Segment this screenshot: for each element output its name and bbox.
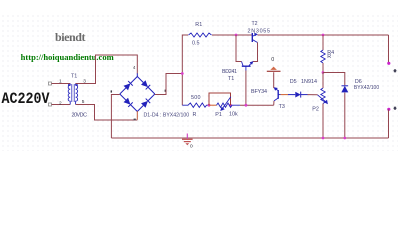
node dot R4/P2/D6	[322, 71, 325, 74]
node dot D6-rail	[343, 137, 346, 140]
svg-text:P2: P2	[312, 106, 319, 112]
wire T3 collector to row	[273, 101, 275, 105]
bridge right pin tick	[165, 90, 167, 92]
wire BD241 base down to row	[245, 71, 247, 106]
svg-text:10k: 10k	[229, 111, 238, 117]
svg-text:R1: R1	[195, 22, 202, 28]
svg-text:T3: T3	[279, 104, 285, 110]
pin mark at bridge bottom	[134, 119, 136, 121]
wire primary top	[52, 83, 71, 85]
wire right rail corner down to + terminal	[388, 35, 390, 63]
wire D5 to P2 wiper	[308, 94, 318, 96]
svg-text:BYX42/100: BYX42/100	[354, 85, 379, 91]
top rail from T2 emitter to right corner	[258, 34, 389, 36]
svg-text:2: 2	[59, 100, 62, 106]
bridge left pin tick	[111, 90, 112, 92]
node dot P1 left	[208, 104, 211, 107]
svg-text:http://hoiquandientu.com: http://hoiquandientu.com	[21, 52, 114, 62]
svg-text:BFY34: BFY34	[251, 89, 267, 95]
wire rail dot down to BD241	[236, 35, 242, 62]
wire T2 collector down	[253, 43, 258, 62]
wire R4 bottom to node	[322, 63, 324, 73]
wire D6 bottom to rail	[344, 93, 346, 138]
svg-text:D5: D5	[290, 79, 297, 85]
wire secondary top to bridge (loop over url)	[76, 55, 138, 84]
AC terminal square bottom	[49, 103, 52, 106]
svg-text:T1: T1	[71, 73, 77, 79]
node dot rail-BD241	[235, 34, 238, 37]
wire node to D6 branch	[323, 73, 345, 86]
terminal dot +	[387, 62, 390, 65]
transistor T3 BFY34	[274, 87, 281, 101]
wire secondary bottom to bridge bottom	[76, 105, 138, 121]
potentiometer P2	[318, 88, 328, 104]
top rail from R1 to T2 base	[212, 34, 252, 36]
svg-text:AC220V: AC220V	[2, 90, 50, 108]
diode D5 1N914	[295, 92, 307, 98]
node dot P2-rail	[322, 137, 325, 140]
svg-text:P1: P1	[215, 112, 222, 118]
wire P1 wiper loop	[209, 93, 231, 105]
svg-text:2N3055: 2N3055	[248, 28, 271, 34]
node dot row-BD241 base	[245, 104, 248, 107]
diode D1 top-left	[118, 74, 140, 96]
AC terminal square top	[49, 82, 52, 85]
bridge top pin	[136, 73, 138, 77]
resistor R1 0.5	[189, 33, 212, 37]
svg-text:0: 0	[190, 144, 193, 150]
terminal mark bottom	[393, 107, 396, 110]
left + bus vertical	[182, 35, 188, 105]
svg-text:20VDC: 20VDC	[72, 112, 88, 118]
diode D4 bottom-right	[135, 92, 157, 114]
svg-text:T2: T2	[252, 21, 258, 27]
transformer T1	[68, 84, 78, 105]
potentiometer P1 10k	[209, 97, 240, 111]
diode D3 bottom-left	[118, 92, 140, 114]
bridge bottom pin	[136, 111, 138, 120]
svg-text:1: 1	[59, 78, 62, 84]
bridge rectifier D1-D4	[111, 73, 167, 120]
svg-text:biendt: biendt	[55, 30, 86, 44]
wire bridge right vertex to + bus	[155, 74, 183, 95]
wire node down to P2 track	[322, 73, 324, 89]
transistor T2 2N3055	[252, 33, 257, 43]
resistor R 500	[182, 103, 209, 107]
terminal mark top	[393, 69, 396, 72]
bottom rail wire	[111, 137, 388, 139]
node dot rail-R4	[322, 34, 325, 37]
wire row P1 to BD241 base node	[240, 104, 274, 106]
svg-text:R: R	[327, 54, 331, 60]
diode D2 top-right	[135, 74, 157, 96]
svg-text:D1-D4 : BYX42/100: D1-D4 : BYX42/100	[144, 112, 190, 118]
wire bridge left vertex down to bottom rail	[111, 95, 119, 139]
wire P2 bottom to rail	[322, 104, 324, 139]
wire T3 base to D5	[281, 94, 289, 96]
dotted grid	[0, 15, 398, 151]
node dot bus	[181, 72, 184, 75]
terminal dot -	[387, 108, 390, 111]
wire - terminal down to rail	[388, 110, 390, 139]
svg-text:T1: T1	[228, 76, 234, 82]
svg-text:0.5: 0.5	[192, 40, 200, 46]
wire R4 line top	[322, 35, 324, 50]
svg-text:500: 500	[191, 95, 201, 101]
svg-text:0: 0	[271, 57, 274, 63]
diode D6	[341, 86, 348, 93]
node dot P1 right	[229, 104, 232, 107]
svg-text:BD241: BD241	[222, 69, 237, 75]
wire T3 emitter up	[273, 72, 275, 87]
power flag 0	[267, 57, 281, 71]
transistor T1 BD241 (upside down)	[242, 61, 254, 70]
svg-text:1N914: 1N914	[301, 79, 317, 85]
resistor R4	[321, 50, 325, 63]
svg-text:R: R	[193, 112, 197, 118]
wire primary bottom	[52, 104, 71, 106]
ground symbol 0	[182, 134, 193, 150]
